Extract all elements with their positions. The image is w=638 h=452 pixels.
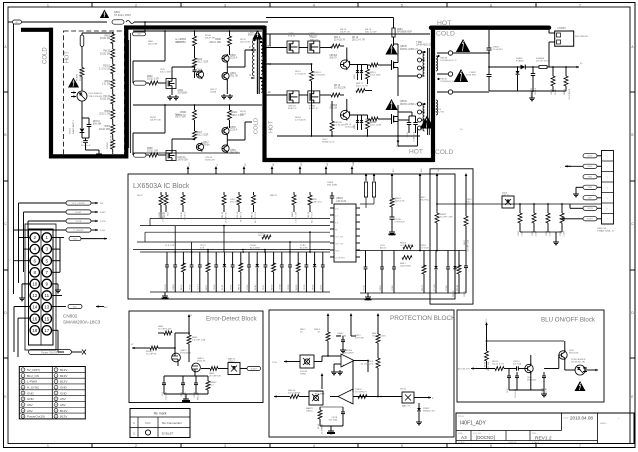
svg-text:S-5TB: S-5TB [587,208,593,210]
node pill GND2 [52,295,63,297]
resistor R821 [228,105,245,128]
svg-text:C8 D2: C8 D2 [407,132,409,137]
svg-text:COLR REG: COLR REG [335,258,345,260]
heatsink warning triangle Q880 [385,44,397,55]
ground driver 1 [167,89,179,100]
wire driver collector join top [227,50,256,72]
svg-text:2012 J,J0B: 2012 J,J0B [370,125,381,127]
svg-text:C8 26: C8 26 [247,284,249,290]
label LX6503A IC Block [133,183,190,190]
resistor R867p [372,333,386,356]
node pill P_ON/OFF [66,228,105,232]
wire drop to driver pill [144,21,146,32]
svg-text:2G 2V 10B: 2G 2V 10B [488,361,490,371]
svg-text:OUT_SEL: OUT_SEL [335,237,344,239]
svg-text:FU82B: FU82B [159,211,161,218]
svg-text:GND: GND [438,167,440,172]
label HOT rotated in dashed box [65,51,71,63]
thick isolation line right vertical [431,26,435,163]
capacitor C846 right box [464,251,468,297]
svg-text:2012 F6.2K: 2012 F6.2K [420,200,431,202]
svg-text:R 4N06: R 4N06 [516,61,524,63]
svg-text:2012J 2M: 2012J 2M [100,38,110,40]
wire output vertical mid [488,53,490,75]
thick isolation line bottom horizontal box B [263,158,435,162]
diode Z8 63 [222,252,226,292]
svg-text:R88 23: R88 23 [270,195,278,197]
svg-text:R81 2: R81 2 [334,37,341,39]
svg-text:3: 3 [224,444,226,448]
svg-text:R88 26: R88 26 [308,211,310,218]
svg-text:2.2 KL4270: 2.2 KL4270 [314,75,326,77]
wire pulldown bottom rail [520,232,562,240]
svg-text:47 uF/16V: 47 uF/16V [493,49,504,51]
resistor R886 gate lower [368,117,379,121]
wire top rail driver section [133,30,262,32]
svg-text:2B CU 4..7R: 2B CU 4..7R [352,40,365,42]
svg-text:2G 2PB46 K: 2G 2PB46 K [322,423,324,434]
node stub protection 2 [350,313,353,336]
svg-text:T 801: T 801 [248,32,255,34]
svg-text:4: 4 [313,4,315,8]
wire Q880 drain to T880 [398,76,418,120]
wire thin top rail to resistor [266,18,394,29]
svg-text:BAV-70: BAV-70 [502,194,510,197]
node stub top right GND [436,167,441,181]
svg-text:N.C: N.C [145,421,151,425]
mosfet C88 G3 boxed [287,91,299,110]
wire secondary circle3 to bottom rail [453,91,489,93]
svg-text:COLD: COLD [43,47,49,64]
wire LX block mid bus left [140,251,330,253]
ground opamp1 [331,370,343,375]
wire CN8132 row6 from bus [570,204,583,208]
svg-text:2012 J 22R: 2012 J 22R [197,135,209,137]
value label C8 14 text [200,245,206,250]
svg-text:BLU_ON: BLU_ON [27,374,39,378]
svg-text:A3: A3 [461,435,467,440]
svg-text:50V 1GB: 50V 1GB [355,338,364,340]
ground LX right [365,293,372,300]
mosfet C8862 boxed [308,33,320,53]
resistor PM 38 [239,252,243,292]
value label R86 5 text [300,329,306,334]
diode Z816 [354,115,363,130]
wire left riser 3 [23,212,25,272]
warning triangle BLU [574,381,585,391]
diode ZD808 right box [453,251,457,298]
wire left riser 2 [18,203,20,283]
svg-text:P_ON/OFF: P_ON/OFF [73,230,84,232]
svg-text:C8.5: C8.5 [507,389,509,393]
svg-text:GND: GND [27,391,35,395]
svg-text:R8 39: R8 39 [271,284,273,290]
svg-text:20 C8P 7.6: 20 C8P 7.6 [241,211,243,222]
wire Q813 collector bus [350,61,368,65]
wire BLU bottom rail [509,373,544,390]
svg-text:T5G: T5G [168,212,170,216]
svg-text:-: - [350,389,351,393]
wire zener ground [416,418,422,425]
value label C28 G4 text [205,157,215,162]
diode D8802 [516,58,527,69]
arrow protection output [414,396,434,400]
node stub top right B13 [391,169,396,181]
resistor RP505 [107,135,115,153]
svg-text:13: 13 [44,305,50,310]
transformer T801 [248,32,272,94]
connector CN880 [555,26,590,46]
svg-text:Z8R2: Z8R2 [354,74,356,79]
svg-text:2012J 10R: 2012J 10R [209,41,221,44]
connector CN8132 [597,151,615,233]
wire main bus to right [437,203,601,205]
svg-text:[DOCNO]: [DOCNO] [476,435,495,440]
svg-text:2012F 6.3K: 2012F 6.3K [150,120,161,122]
value label R8 1B text [240,111,246,116]
svg-text:2012P 1 B: 2012P 1 B [340,32,350,34]
node stub right box [465,173,468,181]
diode ZC 408 right [434,251,438,294]
svg-text:GND: GND [73,239,78,241]
ground CN802 left [19,296,25,301]
wire bus risers LX left [145,218,150,242]
wire output rail1 [489,66,570,68]
node pill B-DET to CN8132 pin 7 [583,217,602,221]
wire PC810 connections [565,359,598,371]
ground in dashed box [86,150,103,157]
capacitor C8628 [329,407,345,426]
svg-text:Q863: Q863 [230,73,236,75]
svg-text:BAV.57V: BAV.57V [310,39,319,42]
resistor PM 22 [222,192,228,223]
svg-text:1/SGN OF: 1/SGN OF [508,442,517,444]
arrow output B+ [570,63,583,68]
node stub top 3 [243,163,248,174]
svg-text:GND: GND [60,391,68,395]
svg-text:R8B3: R8B3 [292,211,294,217]
svg-text:2N6.2B: 2N6.2B [329,108,337,110]
svg-text:C8P F6.3: C8P F6.3 [185,211,187,220]
svg-text:C8 1B: C8 1B [165,284,167,290]
svg-text:63 V 1u F: 63 V 1u F [81,145,91,147]
svg-text:15: 15 [44,316,50,321]
capacitor C8x3 error [194,379,200,400]
svg-text:2012J 2M: 2012J 2M [100,53,110,55]
node stub top 5 [299,161,304,174]
capacitor C803 DPH [82,118,102,138]
resistor R808b [485,351,491,371]
svg-text:AG.06: AG.06 [380,247,387,250]
svg-text:A5V: A5V [27,403,33,407]
wire ladder bottom ground [112,153,114,154]
svg-text:Power ON/OFF: Power ON/OFF [41,350,59,354]
svg-text:FDPF1 2N50 UT: FDPF1 2N50 UT [400,48,418,51]
svg-text:B8V,1GR: B8V,1GR [198,391,200,399]
capacitor C8x2 error [181,379,187,401]
resistor R8814 vertical [310,64,326,136]
svg-text:R8 2B: R8 2B [181,211,183,217]
node pill B-DET output [240,366,261,370]
wire secondary circle1 to node [453,52,490,54]
resistor R865p [314,329,330,356]
svg-text:P-ON: P-ON [100,230,105,232]
svg-text:2012F 1R: 2012F 1R [175,42,185,44]
svg-text:2012 F62K: 2012 F62K [400,266,411,268]
transistor Q865 [222,126,238,135]
value label R88 23 text [270,195,278,197]
wire Q881 to T880 [398,118,418,146]
svg-text:17.06: 17.06 [272,362,277,364]
wire CN802 pin9 ground [52,284,62,293]
capacitor C818 [193,67,204,78]
svg-text:A5V: A5V [60,403,66,407]
mosfet C8864 boxed [308,91,320,110]
wire right box bottom [455,292,466,294]
svg-text:5V_D(6T): 5V_D(6T) [27,368,40,372]
value label R88 17 text [365,119,376,124]
svg-text:2012J 2M: 2012J 2M [148,44,157,46]
label HOT rotated mid [269,120,275,133]
capacitor C8802 [487,47,504,54]
capacitor C8D2 pair 1 [407,116,411,137]
resistor R884 top [392,28,412,46]
transistor Q866 [222,144,238,155]
svg-text:B-DET: B-DET [100,212,107,214]
resistor R806 [99,123,115,138]
svg-text:R801: R801 [105,36,111,38]
svg-text:COLD: COLD [435,149,454,156]
svg-text:SMAW200A-18C3: SMAW200A-18C3 [63,320,101,325]
wire opamp2 net [353,361,379,398]
wire driver bottom rail [133,152,240,154]
svg-text:2012 J 22R: 2012 J 22R [160,72,171,74]
value label PM 03 text [340,29,350,34]
svg-text:20 C8P 1.6W: 20 C8P 1.6W [440,217,454,219]
resistor R852 pulldown [532,204,538,236]
svg-text:R8 16: R8 16 [334,85,341,87]
value label 71.8 J C8 B text [165,245,176,247]
svg-text:B-DET: B-DET [251,368,258,370]
table remark [130,409,190,438]
thick isolation line left vertical box B [265,26,434,163]
photocoupler PC801 [71,91,102,118]
svg-text:IC801: IC801 [70,127,72,134]
svg-text:L-PWM: L-PWM [27,380,38,384]
svg-text:R803: R803 [105,81,111,83]
value label Q86 17 text [210,89,218,94]
warning triangle T880 secondary 2 [454,69,468,82]
resistor PM 43 right [422,251,426,294]
resistor PM 20 [251,192,257,223]
node pill S-5TB to CN8132 pin 6 [583,206,602,210]
transistor Q864 [196,70,203,79]
capacitor 71.8 J [198,252,202,292]
label CN802 [63,314,101,325]
svg-text:GND: GND [353,161,355,166]
svg-text:C8 1B: C8 1B [363,285,365,291]
node stub top right A5V [419,168,424,181]
value label R8 B7 text [150,117,161,122]
resistor R808 [176,105,197,128]
svg-text:CN802: CN802 [63,314,78,319]
ground LX block left [162,292,169,299]
transistor Q862 [222,54,238,63]
resistor R817 [193,128,209,140]
svg-text:MZ884 C36: MZ884 C36 [423,411,435,413]
svg-text:PM 32: PM 32 [103,51,110,53]
svg-text:Q865: Q865 [230,127,236,129]
svg-text:11: 11 [44,293,49,298]
wire dashed box top entry [82,33,114,35]
connector CN802 body [25,224,56,350]
svg-text:TA 3A/H, 250V: TA 3A/H, 250V [114,13,131,17]
capacitor C8714 [513,361,525,371]
node stub opamp2 [321,373,324,389]
transistor Q881 main switch lower [378,105,398,137]
svg-text:B13V: B13V [60,415,67,419]
svg-text:C88 EZ: C88 EZ [329,55,337,57]
svg-text:2012 F 10.3K: 2012 F 10.3K [110,135,112,149]
value label C28 G text [435,109,444,114]
value label ZD8 B text [420,245,429,250]
svg-text:2011 2J 10P: 2011 2J 10P [365,32,377,34]
svg-text:A5V: A5V [73,305,77,308]
svg-text:2B C8P W: 2B C8P W [258,235,269,237]
svg-text:SHEET: SHEET [600,423,607,425]
svg-text:BAV-70: BAV-70 [228,358,236,361]
thick isolation line bottom horizontal box A [49,154,128,158]
svg-text:Date: Date [564,417,569,420]
wire bus junction dots [519,203,563,205]
svg-text:C8 31: C8 31 [321,284,323,290]
resistor R820 [209,31,231,55]
capacitor C8 1B right [363,251,367,294]
value label C8 B4 text [250,245,260,250]
opto IC8610 boxed [306,391,323,413]
heatsink warning triangle Q881 [385,99,397,110]
transistor Q813 [329,48,349,71]
svg-text:B: B [4,133,6,137]
wire driver left bundle 1 [130,33,132,153]
wire CN802 right pins to bus [52,238,65,273]
svg-text:A5V: A5V [27,409,33,413]
svg-text:ROM4 C13 6: ROM4 C13 6 [322,142,335,144]
mosfet Q8613 [189,352,206,376]
mosfet Q861 [166,79,188,95]
svg-text:6: 6 [490,444,492,448]
svg-text:PM 4B: PM 4B [457,284,459,291]
ground protection [327,429,335,434]
node stub top 4 [271,163,276,174]
node AC input pill [8,20,22,24]
transistor Q867 [196,142,210,152]
resistor R8817 horizontal [356,83,372,93]
svg-text:Q817: Q817 [203,142,209,144]
svg-text:R88 23: R88 23 [164,211,166,218]
svg-text:PowerOn(19): PowerOn(19) [27,415,45,419]
svg-text:BV627 6: BV627 6 [288,108,297,110]
svg-text:2012J 1.0R: 2012J 1.0R [147,79,159,81]
svg-text:2-C8P: 2-C8P [563,230,565,236]
svg-text:7: 7 [579,444,581,448]
resistor R885 gate [368,63,379,67]
value label C88 9 text [230,199,240,204]
svg-text:TITLE: TITLE [458,416,464,418]
svg-text:REV: REV [532,433,537,435]
opto IC8611 boxed [300,355,314,376]
svg-text:HUT 4B D2: HUT 4B D2 [569,88,571,99]
svg-text:2 C8P 1.0W: 2 C8P 1.0W [296,212,298,223]
diode D8614 boxed error [228,358,240,375]
wire driver to transformer pin2 [245,49,253,51]
svg-text:R868: R868 [147,148,153,150]
ground output cluster [529,91,535,101]
svg-text:2K C8 P10.6: 2K C8 P10.6 [361,364,374,366]
svg-text:COLD: COLD [254,118,260,134]
capacitor C81B chain [390,217,406,230]
wire opto1 to opamp [314,355,329,361]
svg-text:5: 5 [401,444,403,448]
wire snubber row 2 [266,94,331,96]
svg-text:N.C: N.C [210,385,214,387]
resistor R867 NC [206,379,217,394]
resistor R8B3 [292,192,298,223]
svg-text:2N6.7K: 2N6.7K [329,58,337,60]
svg-text:KRC102S: KRC102S [569,353,579,355]
node pill GND to CN8132 pin 4 [583,185,602,189]
wire CN880 pin2 drop [549,30,555,67]
svg-text:E: E [4,395,6,399]
svg-text:71.8 J C8 B: 71.8 J C8 B [165,245,176,247]
block box LX6503A IC Block [128,174,455,299]
svg-text:KA431 AMP 3: KA431 AMP 3 [72,120,75,134]
capacitor C810 parallel 1 [507,369,511,394]
svg-text:S.0 V324: S.0 V324 [420,248,429,250]
svg-text:GND: GND [27,397,35,401]
svg-text:LX6503A IC Block: LX6503A IC Block [133,183,190,190]
label PROTECTION BLOCK [390,315,456,322]
resistor R2012 [99,62,115,77]
svg-text:536-164: 536-164 [93,124,102,126]
svg-text:FU80B: FU80B [77,74,79,81]
wire right box bus [460,250,466,252]
svg-text:2222 A: 2222 A [230,129,238,132]
wire LX block ground rail left [150,291,330,293]
svg-text:6: 6 [490,4,492,8]
label COLD rotated left [43,47,49,64]
value label R8 G3 text [175,39,185,44]
wire bottom rail switching section [277,135,420,137]
diode ZD880 zener [516,67,520,91]
svg-text:2N70.2K: 2N70.2K [197,361,206,363]
svg-text:Q866: Q866 [230,150,236,152]
svg-text:a: a [560,167,561,169]
node stub BLU top [485,318,488,330]
value label R8 B3 text [205,35,215,40]
svg-text:3L B K: 3L B K [555,88,557,95]
svg-text:GA48-4002 Z1: GA48-4002 Z1 [416,44,432,47]
wire caps top join [398,112,416,116]
svg-text:2012F 1W: 2012F 1W [205,38,215,40]
warning triangle near boundary [420,116,434,129]
warning triangle in dashed box [68,78,79,88]
svg-text:2: 2 [135,4,137,8]
diode ZB 22 [312,252,316,292]
capacitor C2802 [81,138,91,150]
node pill Power ON/OFF [29,350,87,355]
ground stub chain [389,230,396,235]
